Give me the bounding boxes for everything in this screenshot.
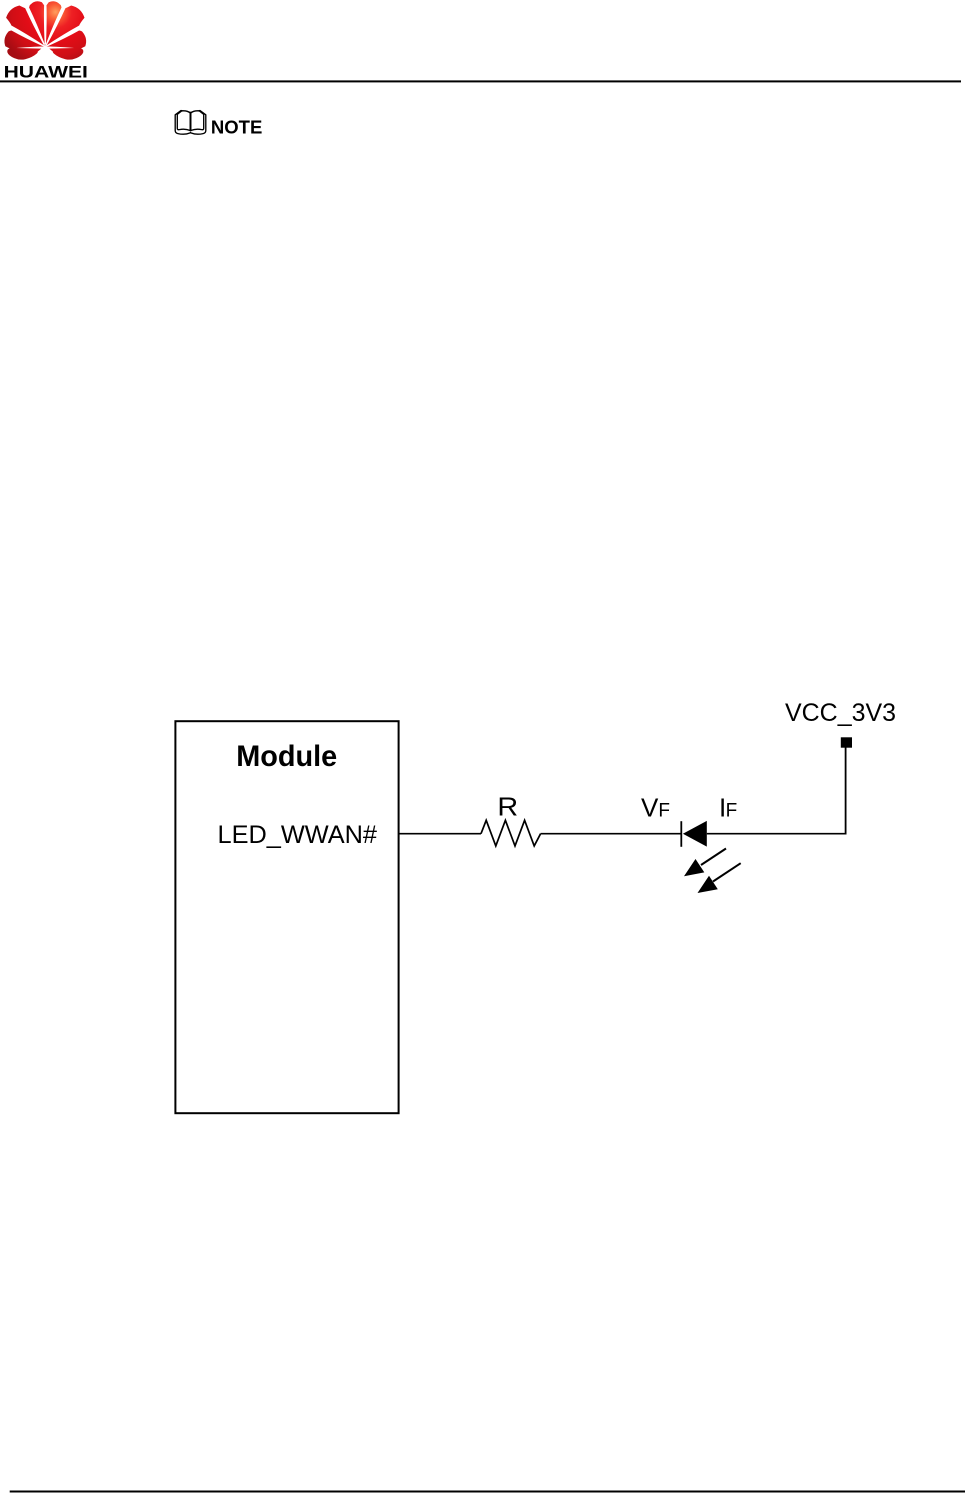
svg-text:F: F bbox=[726, 801, 738, 822]
wire resistor to LED bbox=[541, 833, 681, 835]
svg-text:HUAWEI: HUAWEI bbox=[4, 63, 88, 81]
LED light arrow 1 bbox=[684, 849, 726, 877]
module box bbox=[175, 721, 398, 1113]
Huawei logo right upper petal 5 bbox=[45, 1, 61, 45]
VCC_3V3 terminal square bbox=[841, 737, 852, 747]
LED light arrow 2 bbox=[698, 863, 741, 893]
resistor R bbox=[481, 820, 541, 846]
svg-text:LED_WWAN#: LED_WWAN# bbox=[218, 821, 378, 849]
svg-text:Module: Module bbox=[236, 740, 337, 773]
Huawei logo left wing petal 2 bbox=[4, 31, 43, 49]
svg-text:NOTE: NOTE bbox=[211, 116, 262, 137]
LED D1 triangle bbox=[683, 821, 707, 847]
header rule bbox=[0, 80, 961, 82]
Huawei logo bottom-left lobe petal 1 bbox=[7, 48, 41, 60]
wire module to resistor bbox=[399, 833, 481, 835]
LED D1 cathode bar bbox=[680, 821, 682, 847]
svg-text:R: R bbox=[497, 792, 518, 822]
wire LED to VCC bbox=[707, 833, 846, 835]
Huawei logo bottom-right lobe petal 8 bbox=[49, 48, 83, 60]
Huawei logo right diagonal petal 6 bbox=[46, 6, 84, 46]
svg-text:VCC_3V3: VCC_3V3 bbox=[785, 699, 896, 727]
Huawei logo right wing petal 7 bbox=[47, 31, 86, 49]
footer rule bbox=[10, 1491, 965, 1493]
Huawei logo left diagonal petal 3 bbox=[6, 6, 44, 46]
Huawei logo left upper petal 4 bbox=[29, 1, 45, 45]
svg-text:V: V bbox=[641, 793, 659, 823]
NOTE book icon bbox=[175, 111, 206, 135]
svg-text:F: F bbox=[658, 801, 670, 822]
wire vertical to VCC terminal bbox=[845, 748, 847, 835]
